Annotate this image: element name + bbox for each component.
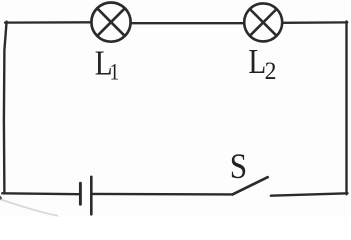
lamp L2 (circle with X) (244, 3, 282, 41)
label S (switch) (230, 147, 247, 187)
label L1 (95, 43, 119, 85)
wire: top, from lamp L2 to top-right corner (283, 21, 348, 24)
svg-text:2: 2 (265, 58, 277, 86)
wire: bottom left (bottom-left corner to battery) (2, 192, 79, 195)
battery: long plate (positive terminal) (90, 177, 93, 215)
label L2 (248, 42, 276, 86)
wire: left side (top-left corner down to bottom-left corner) (4, 22, 7, 194)
battery: short plate (negative terminal) (79, 183, 82, 204)
wire: right side (top-right corner down to bottom-right corner) (345, 21, 347, 194)
lamp L1 (circle with X) (91, 3, 130, 42)
wire: top, from top-left corner to lamp L1 (5, 21, 91, 24)
svg-text:1: 1 (110, 59, 120, 85)
wire: bottom right (switch contact to bottom-right corner) (271, 193, 348, 195)
svg-text:S: S (230, 147, 247, 187)
switch S: blade (open) (233, 177, 268, 194)
wire: bottom middle (battery to switch) (93, 193, 233, 196)
svg-text:L: L (248, 42, 266, 81)
scan artifact: dark mark at left edge below corner (0, 196, 2, 201)
wire: top, between lamp L1 and lamp L2 (131, 22, 244, 24)
scan artifact: faint diagonal mark bottom-left (1, 200, 58, 216)
